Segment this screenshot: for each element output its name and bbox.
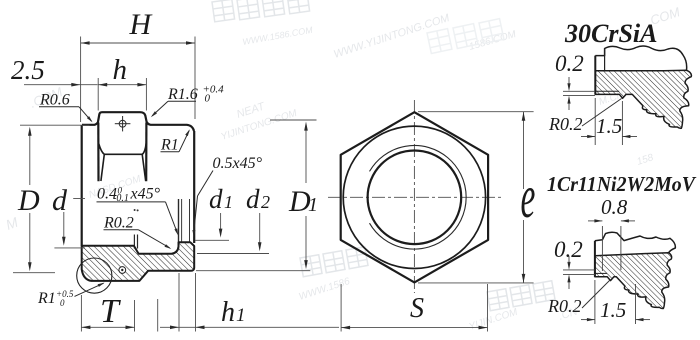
svg-text:d: d: [52, 184, 68, 217]
chamfer circle: [343, 126, 485, 268]
svg-text:R1: R1: [160, 137, 179, 154]
thread major dia thin arc: [370, 146, 467, 250]
svg-text:1: 1: [224, 192, 233, 212]
detail2 outer face: [594, 241, 596, 277]
svg-text:0.8: 0.8: [601, 195, 628, 219]
detail1 lip inner line: [595, 90, 619, 92]
svg-text:h: h: [113, 54, 128, 86]
svg-text:R0.2: R0.2: [548, 114, 583, 134]
svg-text:R1: R1: [37, 290, 56, 307]
svg-text:30CrSiA: 30CrSiA: [564, 19, 658, 48]
bore chamfer lines (left side): [133, 235, 135, 249]
bore circle (minor dia): [368, 151, 462, 245]
nut body sides: [81, 125, 83, 246]
svg-text:0: 0: [205, 93, 211, 105]
svg-text:R0.2: R0.2: [547, 296, 582, 316]
svg-text:S: S: [410, 293, 424, 324]
svg-text:0.2: 0.2: [555, 51, 584, 76]
small circle "a" inside hatch: [119, 267, 126, 274]
svg-text:R1.6: R1.6: [167, 86, 198, 103]
svg-text:0.5x45°: 0.5x45°: [213, 155, 263, 172]
detail2 lip inner line: [595, 272, 607, 274]
svg-text:d: d: [209, 184, 223, 214]
svg-text:H: H: [129, 8, 154, 41]
svg-text:D: D: [17, 184, 40, 217]
detail1 outer face: [594, 56, 596, 95]
detail circle (R1 corner): [77, 258, 112, 293]
svg-text:1Cr11Ni2W2MoV: 1Cr11Ni2W2MoV: [547, 172, 697, 196]
svg-text:R0.6: R0.6: [39, 92, 70, 109]
boss centre mark: [115, 116, 131, 131]
svg-text:2.5: 2.5: [11, 55, 45, 85]
svg-text:1: 1: [308, 194, 318, 216]
svg-text:2: 2: [261, 192, 270, 212]
svg-text:1: 1: [236, 305, 246, 326]
svg-text:0: 0: [60, 298, 65, 308]
svg-text:x45°: x45°: [130, 186, 161, 203]
hex view: centerlines: [328, 196, 501, 198]
detail2 slot side lines: [601, 226, 603, 271]
svg-text:1.5: 1.5: [600, 298, 626, 322]
detail2 rim section hatched: [595, 253, 672, 309]
svg-text:h: h: [221, 297, 235, 328]
hexagon outline: [341, 112, 488, 282]
svg-text:0.2: 0.2: [554, 237, 583, 262]
svg-text:e: e: [521, 162, 536, 230]
two small dots artefact: [134, 209, 136, 211]
svg-text:T: T: [100, 293, 121, 330]
hex boss side flats: [97, 123, 99, 182]
svg-text:1.5: 1.5: [596, 114, 622, 138]
svg-text:+0.5: +0.5: [56, 289, 74, 299]
hex locking boss outline (top): [82, 112, 194, 131]
svg-text:d: d: [246, 184, 260, 214]
svg-text:R0.2: R0.2: [103, 215, 134, 232]
bore / thread lines (right side): [178, 199, 180, 242]
hex boss chamfer arcs and face edges: [99, 144, 146, 155]
detail1 rim section hatched: [595, 70, 691, 128]
detail2 top break edge with 0.8 slot rib: [595, 232, 675, 253]
flange cross-section (hatched): [82, 242, 195, 281]
detail1 lip top and break edge: [595, 46, 686, 70]
